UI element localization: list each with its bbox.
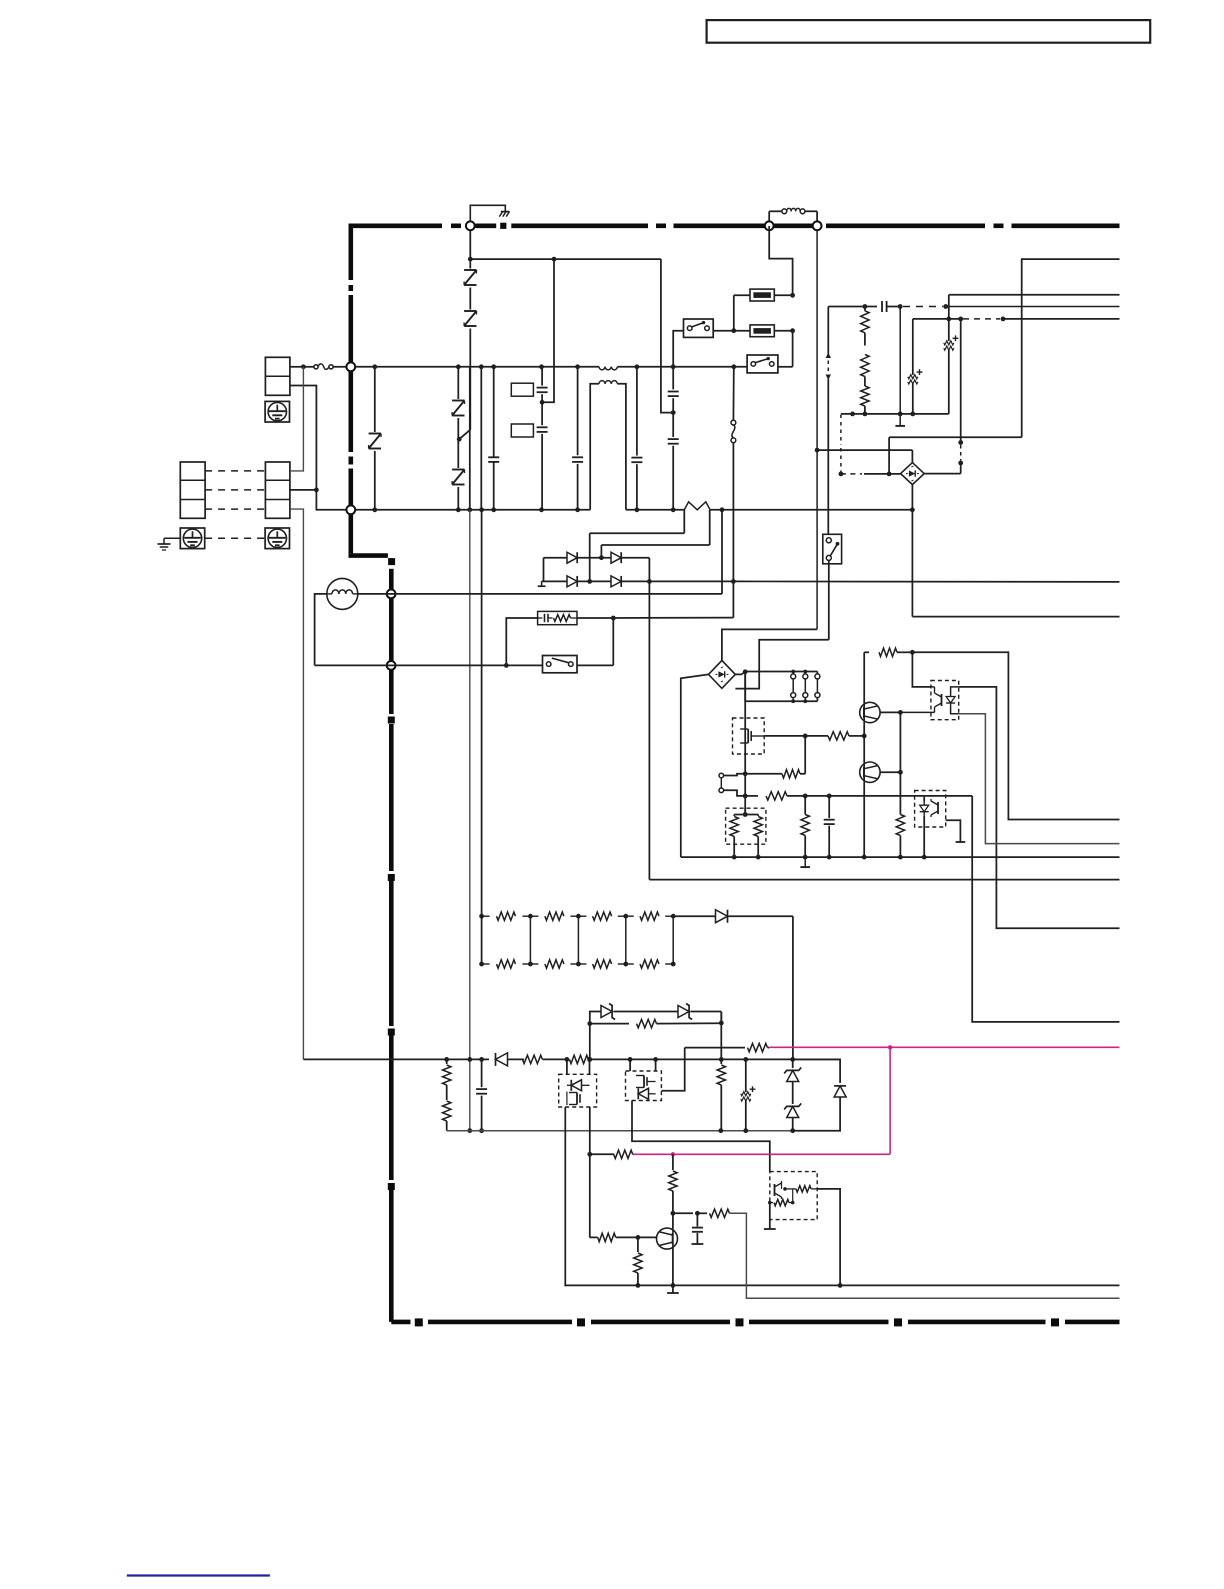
node boundary right [813,221,822,230]
resistor pair R7 R8 in dashed pack [726,808,766,859]
node neutral wire crosses boundary [346,505,355,514]
diode D7 branch [793,1059,846,1130]
output line y306 (dashed link) [903,304,1120,309]
optocoupler PC2 [915,791,946,828]
wire x481 live to ladder [480,367,482,510]
source rail to y1285 [565,1107,1119,1286]
dashed link x841 to bridge DB1 [839,415,901,477]
resistor divider chain R1 R2 R3 [828,304,869,416]
node y665 on boundary [387,661,396,670]
relay RC snubber [506,611,733,665]
wire y796 with resistor R6 [745,792,972,800]
relay contact RL1 [823,534,842,564]
capacitor C3 [488,367,499,510]
live wire L (y367) with choke winding [355,364,747,369]
wire J1 pin2 stub [290,489,317,491]
sensor rail x817 from boundary node [815,230,820,629]
resistors R20 R21 [443,1059,451,1130]
bridge rectifier DB2 [709,660,736,688]
earth terminal left [180,528,204,549]
LV return rail y1131 [447,1128,840,1133]
thermal fuse F on live input [303,364,348,370]
capacitor C12 [476,1059,487,1133]
output line y259 via x1022 [1022,259,1120,437]
zeners ZD3 ZD4 row [590,1004,722,1024]
optocoupler PC1 [900,681,958,720]
resistor ladder R12-R19 [479,912,675,968]
earth terminal right [265,528,289,549]
resistor R25 into pink net [590,1150,634,1158]
wire to optocoupler PC1 [912,652,931,687]
wire x817 to bridge DB2 top [722,629,817,660]
jumper rail bottom y701 [745,672,817,701]
fuse rail left [733,295,735,330]
chassis boundary left upper border with corner [349,226,395,565]
capacitor C14 to ground [673,1211,703,1244]
node boundary left [765,221,774,230]
connector J1 (3-pin, right) [265,462,290,518]
motor return wire [315,594,327,666]
diode row D1 D2 [544,552,650,581]
gate wire y736 with resistor R4 [764,732,866,740]
X-capacitors C1 C2 with class boxes [511,367,547,510]
wire DB1 bottom to output y617 [910,485,1120,617]
wire x900 [899,307,901,414]
resistor R5 to gate node [745,736,805,778]
base resistor R27 [590,1233,657,1241]
connector P1 (3-pin, left) [180,462,205,518]
relay contact RL2 [543,618,614,673]
wire D-row1 down to output y880 [649,558,1119,880]
wire y437 [887,437,1022,476]
resistor R28 [634,1237,642,1287]
resistor R24 row [587,1019,721,1059]
title block (empty) [707,20,1151,43]
resistor R26 [669,1154,677,1215]
capacitor C8 on sense line [865,301,903,312]
MOSFET Q4 in dashed pack [733,718,765,754]
fuse F2 [731,325,795,337]
wire y450 to bridge DB1 top [817,450,912,463]
chassis ground y867 [800,855,810,867]
long rail x470 [467,367,472,1133]
wire x685 to Q6 [661,1048,684,1091]
wire to optocoupler PC3 [632,1101,770,1172]
surge arrester chain Z3 Z4 live-neutral [452,367,464,510]
transistor Q1 [860,652,903,736]
wire CN1 pin2 to neutral [290,386,351,510]
main LV wire y1059 with diode D6 resistors [303,1053,840,1066]
MOSFET pack Q6 (dashed) [626,1059,662,1100]
rail x972 to output y1022 [972,796,1119,1022]
bridge rectifier DB1 [901,463,925,485]
fuse F1 [734,289,795,301]
feedback wire y1048 resistor R22 [685,1043,770,1051]
choke T1 second winding [590,381,626,510]
chassis ground at earth node [470,205,509,221]
wire y259 to X-capacitor column [470,257,675,415]
chassis ground stub x900 [895,414,905,426]
net VSEN pink upper [769,1045,1119,1049]
capacitor C4 [572,367,583,510]
protective earth terminal under CN1 [265,401,289,422]
connector CN1 AC inlet (2-pin) [265,357,290,395]
dashed cable between connectors [205,471,265,538]
output line y295 [949,294,1120,296]
node live wire crosses boundary [346,362,355,371]
gate rail x589 down [587,1057,592,1237]
connector pins CN2 [719,773,745,796]
transistor Q3 [657,1213,679,1293]
wire relay to bridge DB2 bottom [735,560,828,688]
wire y652 with resistor R11 to output [864,648,1119,819]
PC1 pin to output y844 [959,714,1120,844]
diode row D3 D4 [538,576,652,587]
electrolytic C9 [908,319,923,414]
wire x481 to ladder [479,510,484,919]
node earth chain on boundary [466,221,475,230]
PC3 emitter ground [764,1203,776,1229]
wire J1 pin3 down left rail [290,509,304,1059]
fuse rail right down to switch [792,331,794,367]
output wire y582 [649,580,1119,583]
PC2 output to chassis ground [946,820,966,842]
diode D5 to zener rail [673,910,793,1060]
jumper plug bank (3 pairs) [791,670,820,704]
PC1 pin to output y928 [959,687,1120,928]
switch SW1 [673,319,734,367]
sense link x961 (dashed) [958,319,963,474]
PC2 LED to rail y857 [922,796,927,860]
wire node to fuse rail [769,226,792,295]
surge gap SG1 x733 [731,367,736,618]
power switch SW2 [747,355,793,373]
output line y319 (dashed link) [913,317,1120,322]
transistor Q2 [860,736,903,860]
wire y665 to relay [315,663,543,668]
surge arrester Z5 [369,367,381,510]
inductor across boundary nodes [769,208,817,226]
PC3 output to y1285 [817,1189,842,1288]
motor M1 [327,578,358,609]
capacitor column C6 C7 after switch [668,367,679,510]
resistor R29 to rail y1298 [697,1209,1119,1298]
footer rule (blue) [127,1574,270,1576]
resistor R23 [717,1012,725,1131]
jumper rail top y671 [735,669,817,674]
zeners ZD1 ZD2 [784,1059,801,1130]
MOSFET pack Q5 (dashed) [559,1059,597,1107]
capacitor C5 [631,367,642,510]
relay drive link x828 (dashed mechanical) [826,307,831,535]
electrolytic C13 [741,1059,756,1130]
wire CN1 pin1 to fuse [290,364,306,369]
step wire zigzag-left to D row2 [587,510,684,584]
optocoupler PC3 [768,1172,817,1220]
surge arrester chain Z1 Z2 from earth node [457,230,477,441]
chassis boundary top dash-dot border [349,223,1120,228]
step wire zigzag-right to D row1 [599,510,710,560]
wire J1 pin1 up to live node [290,367,304,471]
neutral wire N (y510) with surge gap resistor [355,502,912,512]
rail x745 through MOSFET [743,672,748,817]
net VSEN pink vertical [889,1047,891,1154]
net VSEN pink lower [634,1152,891,1156]
wire y414 bottom of divider [841,412,949,417]
wire DB1 right vertex [924,473,961,475]
electrolytic C10 and rail x949 [944,295,959,414]
resistor R9 [801,796,809,857]
chassis ground at earth terminal [158,538,181,550]
chassis boundary bottom border [391,1319,1119,1326]
rail x900 with resistor R10 [896,712,904,859]
motor wire y594 to neutral [358,510,722,594]
capacitor C11 [824,796,835,860]
wire DB2 left to common rail y857 [681,674,1120,857]
chassis boundary left lower border [388,569,394,1322]
node motor wire on boundary [387,590,396,599]
wire drop x554 to cap column [540,259,554,405]
